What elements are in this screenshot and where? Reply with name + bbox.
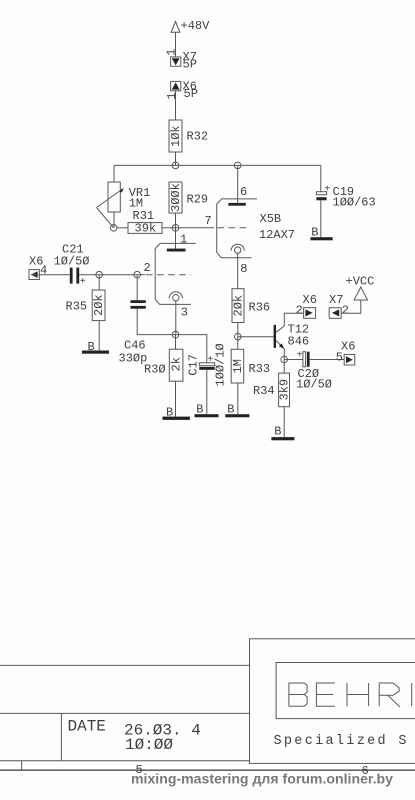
svg-text:1Øk: 1Øk [169, 125, 183, 147]
tube X5A cathode (pin 3) [169, 292, 188, 335]
ground B (C19) [311, 225, 333, 240]
svg-text:3ØØk: 3ØØk [169, 183, 183, 212]
svg-text:5: 5 [336, 351, 343, 365]
svg-text:2: 2 [342, 304, 349, 318]
svg-text:X5B: X5B [260, 212, 282, 226]
svg-text:7: 7 [205, 214, 212, 228]
resistor R36 20k [231, 289, 270, 350]
wire [113, 165, 115, 182]
tube X5A envelope [155, 243, 196, 304]
logo letter E [316, 683, 335, 706]
svg-text:2: 2 [296, 304, 303, 318]
svg-text:3: 3 [181, 305, 188, 319]
tube X5B grid (pin 7) [218, 227, 251, 229]
logo letter R [379, 683, 400, 707]
svg-text:5P: 5P [184, 87, 198, 101]
svg-text:X6: X6 [341, 340, 355, 354]
svg-text:2k: 2k [170, 357, 184, 371]
svg-text:33Øp: 33Øp [119, 352, 148, 366]
resistor R30 2k [144, 335, 184, 417]
frame bottom border [0, 769, 415, 771]
svg-text:R31: R31 [133, 209, 155, 223]
svg-text:2Øk: 2Øk [231, 295, 245, 317]
svg-text:C17: C17 [187, 354, 201, 376]
resistor R34 3k9 [253, 360, 292, 438]
capacitor C19 100/63 [316, 165, 375, 237]
svg-text:2: 2 [144, 261, 151, 275]
wire [175, 152, 177, 165]
svg-text:R36: R36 [249, 301, 271, 315]
tube X5B envelope [217, 199, 295, 258]
connector X6 pin 4 input [29, 254, 47, 279]
svg-text:4: 4 [40, 264, 47, 278]
svg-text:1ØØ/1Ø: 1ØØ/1Ø [214, 343, 228, 386]
connector X6 pin 1 (5P) [165, 80, 198, 102]
svg-text:+: + [207, 355, 213, 366]
tube X5B cathode (pin 8) [231, 244, 247, 289]
node junction grid/plate [172, 225, 179, 232]
svg-text:B: B [166, 406, 173, 420]
title block divider [60, 713, 62, 760]
node junction VR1/R31 [110, 225, 117, 232]
svg-text:+: + [80, 277, 86, 288]
svg-text:+VCC: +VCC [346, 275, 375, 289]
node junction R35 [96, 271, 103, 278]
wire [79, 274, 141, 276]
node junction 2 [134, 271, 141, 278]
svg-text:B: B [227, 403, 234, 417]
svg-text:R34: R34 [253, 384, 275, 398]
svg-text:X6: X6 [303, 293, 317, 307]
svg-text:B: B [274, 425, 281, 439]
capacitor C20 10/50 [284, 351, 344, 392]
resistor R29 300k [169, 182, 208, 228]
svg-text:DATE: DATE [68, 718, 106, 736]
frame tick [21, 761, 23, 770]
wire cathode node [137, 309, 207, 363]
svg-text:1ØØ/63: 1ØØ/63 [333, 196, 376, 210]
svg-text:mixing-mastering для forum.onl: mixing-mastering для forum.onliner.by [131, 771, 393, 787]
svg-text:1: 1 [165, 92, 179, 99]
capacitor C46 330p [119, 275, 148, 366]
svg-text:Specialized S: Specialized S [274, 734, 409, 749]
wire base [238, 336, 274, 338]
capacitor C21 10/50 [54, 242, 90, 288]
capacitor C17 100/10 [187, 343, 228, 414]
wire [175, 32, 177, 57]
logo letter H [347, 683, 369, 706]
svg-text:B: B [196, 403, 203, 417]
tube X5A grid (pin 2) [141, 261, 191, 275]
ground B (C17) [195, 403, 219, 418]
wire pin 7 [176, 214, 215, 228]
tube X5B right triode plate (pin 6) [228, 165, 247, 205]
connector X7 pin 2 [329, 293, 349, 318]
logo letter B [289, 683, 307, 706]
wire supply bus [114, 164, 321, 166]
node junction cathode [172, 331, 179, 338]
node junction base [235, 333, 242, 340]
svg-text:1Ø/5Ø: 1Ø/5Ø [54, 254, 90, 268]
svg-text:6: 6 [240, 185, 247, 199]
svg-text:R35: R35 [66, 300, 88, 314]
connector X6 pin 2 [296, 293, 317, 318]
resistor R35 20k [66, 275, 107, 351]
ground B (R35) [82, 340, 109, 354]
logo inner box [276, 663, 415, 719]
svg-text:1: 1 [180, 232, 187, 246]
svg-text:39k: 39k [135, 222, 157, 236]
svg-text:B: B [311, 225, 318, 239]
resistor R33 1M [231, 349, 270, 414]
title block line 2 [0, 712, 250, 714]
title block line 3 [0, 760, 250, 762]
svg-text:3k9: 3k9 [278, 379, 292, 401]
svg-text:8: 8 [240, 262, 247, 276]
ground B (R34) [271, 425, 294, 441]
svg-text:1Ø:ØØ: 1Ø:ØØ [125, 736, 173, 754]
svg-text:+: + [324, 185, 330, 196]
svg-text:R29: R29 [187, 193, 209, 207]
ground B (R30) [163, 406, 190, 420]
svg-text:1Ø/5Ø: 1Ø/5Ø [296, 378, 332, 392]
node junction R32/R29 [172, 162, 179, 169]
wire pin 1 [176, 228, 188, 249]
resistor R31 39k [117, 209, 176, 236]
node junction emitter [281, 356, 288, 363]
svg-text:2Øk: 2Øk [92, 294, 106, 316]
svg-text:+: + [297, 351, 303, 362]
power +VCC [341, 275, 374, 314]
svg-text:1M: 1M [231, 359, 245, 373]
connector X6 pin 5 output [336, 340, 356, 365]
wire [175, 91, 177, 120]
title block line 1 [0, 664, 250, 666]
svg-text:12AX7: 12AX7 [259, 228, 295, 242]
transistor T12 846 [274, 313, 310, 359]
potentiometer VR1 1M [97, 182, 151, 228]
svg-text:R32: R32 [187, 130, 209, 144]
wire [39, 274, 69, 276]
tube X5A left triode plate [167, 249, 186, 252]
logo letter I [411, 683, 413, 706]
power +48V [171, 19, 210, 33]
resistor R32 10k [169, 120, 208, 152]
svg-text:R3Ø: R3Ø [144, 363, 166, 377]
svg-text:1: 1 [165, 49, 179, 56]
svg-text:+48V: +48V [181, 19, 211, 33]
node junction plate [234, 162, 241, 169]
ground B (R33) [225, 403, 249, 418]
svg-text:R33: R33 [249, 362, 271, 376]
connector X7 pin 1 (5P) [165, 49, 197, 72]
logo outer box [250, 639, 415, 764]
svg-text:5P: 5P [183, 58, 197, 72]
svg-text:B: B [88, 340, 95, 354]
svg-text:846: 846 [288, 334, 310, 348]
